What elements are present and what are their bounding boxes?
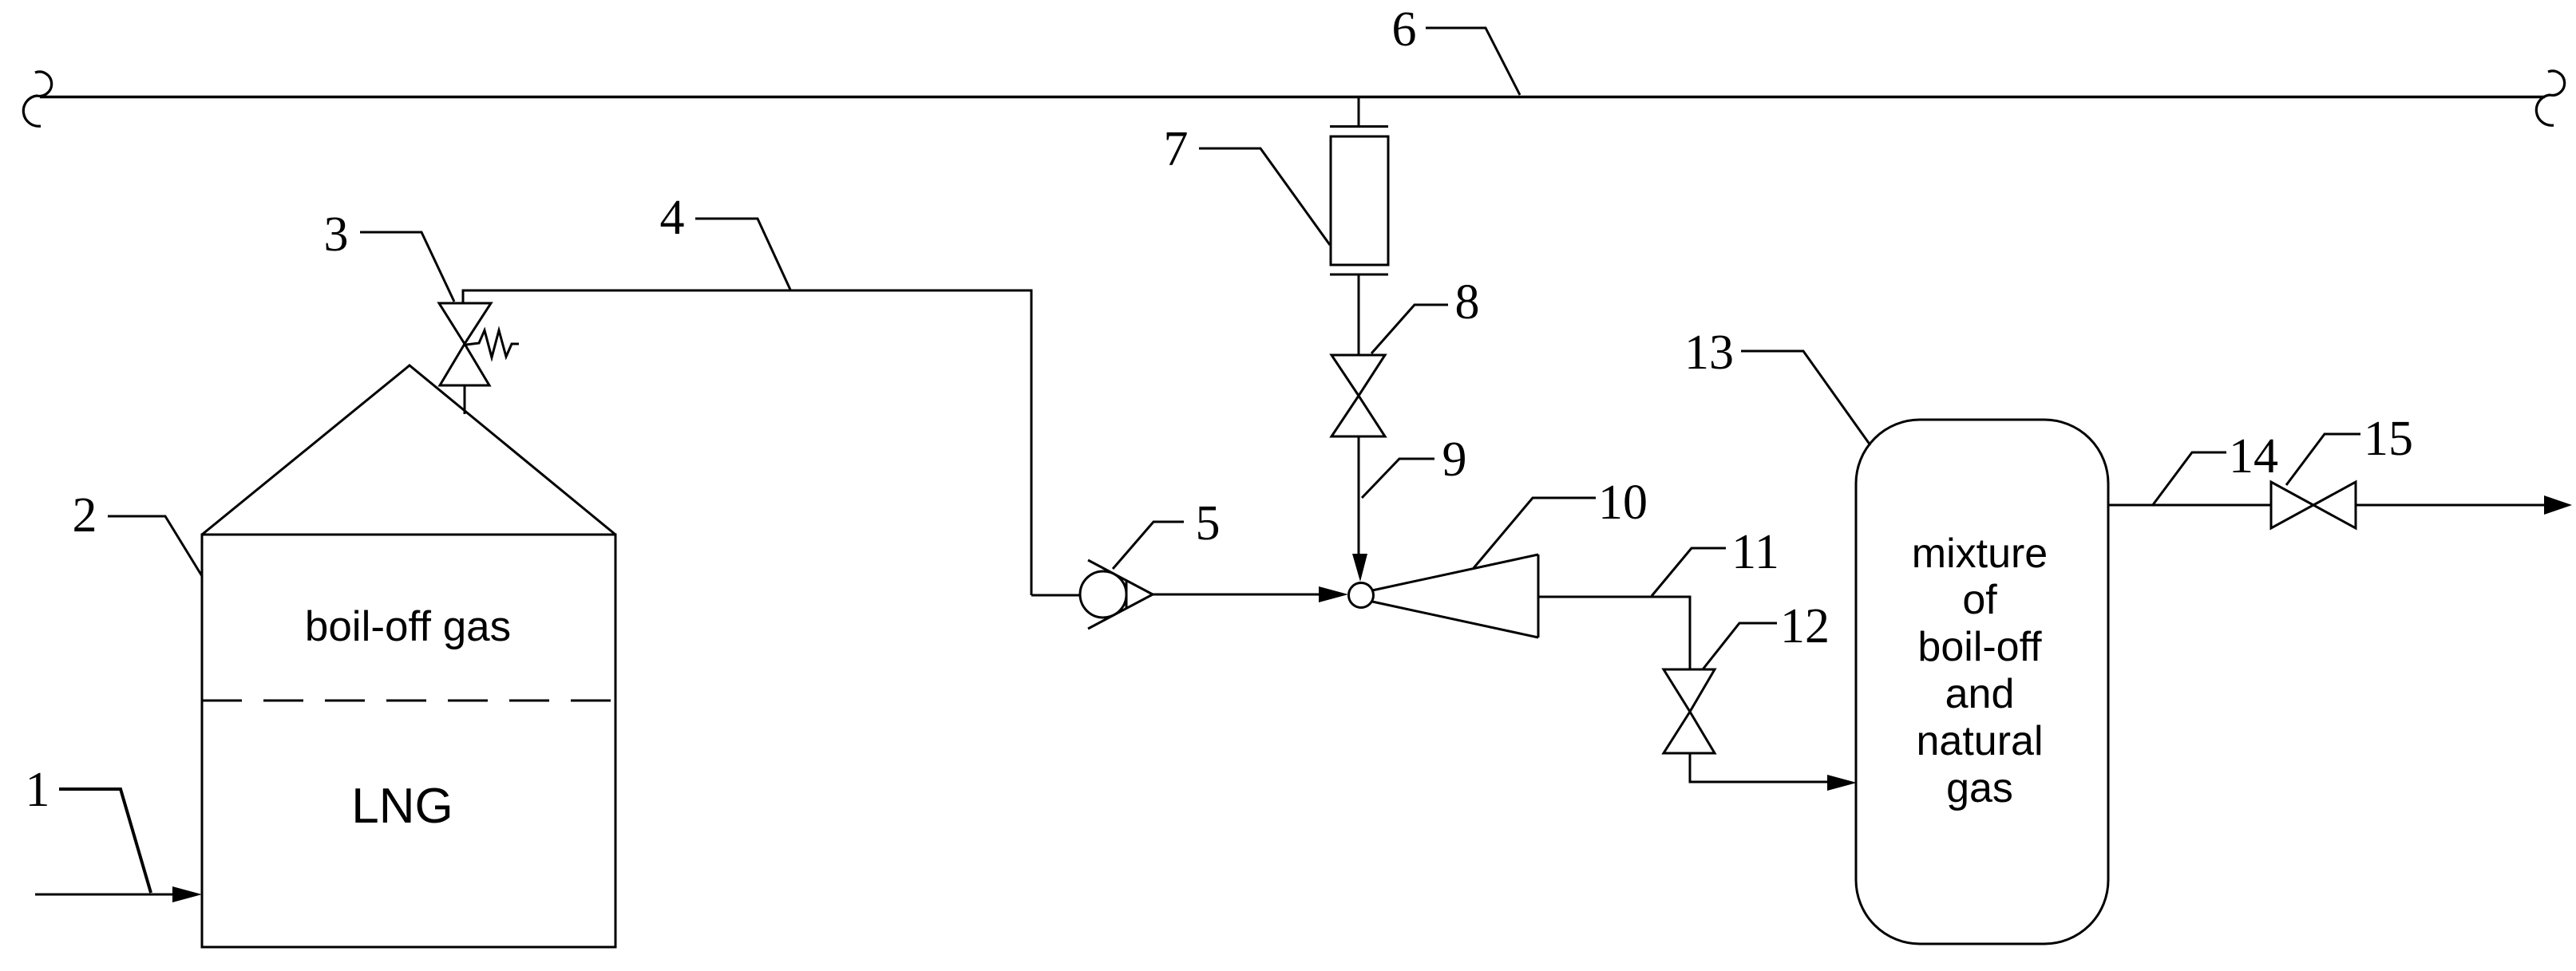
svg-text:6: 6 — [1392, 2, 1417, 57]
svg-text:15: 15 — [2364, 412, 2413, 466]
svg-text:10: 10 — [1598, 476, 1648, 530]
svg-text:mixture: mixture — [1912, 531, 2048, 577]
svg-text:natural: natural — [1917, 718, 2044, 764]
svg-text:3: 3 — [324, 207, 349, 262]
svg-text:gas: gas — [1946, 765, 2013, 811]
svg-text:1: 1 — [26, 763, 50, 817]
svg-text:12: 12 — [1780, 599, 1830, 653]
svg-text:5: 5 — [1196, 496, 1221, 551]
svg-text:boil-off: boil-off — [1917, 624, 2042, 670]
svg-text:2: 2 — [73, 488, 97, 543]
svg-text:8: 8 — [1455, 275, 1480, 330]
svg-text:of: of — [1962, 577, 1997, 623]
svg-text:4: 4 — [660, 191, 685, 245]
svg-text:LNG: LNG — [351, 779, 453, 834]
svg-text:13: 13 — [1684, 326, 1734, 380]
svg-text:boil-off gas: boil-off gas — [305, 603, 511, 650]
svg-text:and: and — [1945, 671, 2015, 717]
svg-text:11: 11 — [1731, 525, 1779, 579]
svg-text:7: 7 — [1164, 122, 1189, 176]
svg-text:9: 9 — [1442, 432, 1467, 487]
svg-text:14: 14 — [2229, 429, 2278, 484]
